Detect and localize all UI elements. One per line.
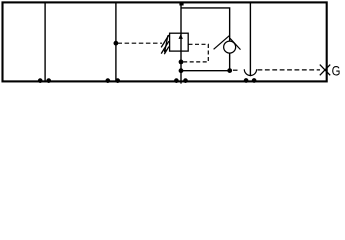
svg-text:G: G — [332, 62, 341, 78]
